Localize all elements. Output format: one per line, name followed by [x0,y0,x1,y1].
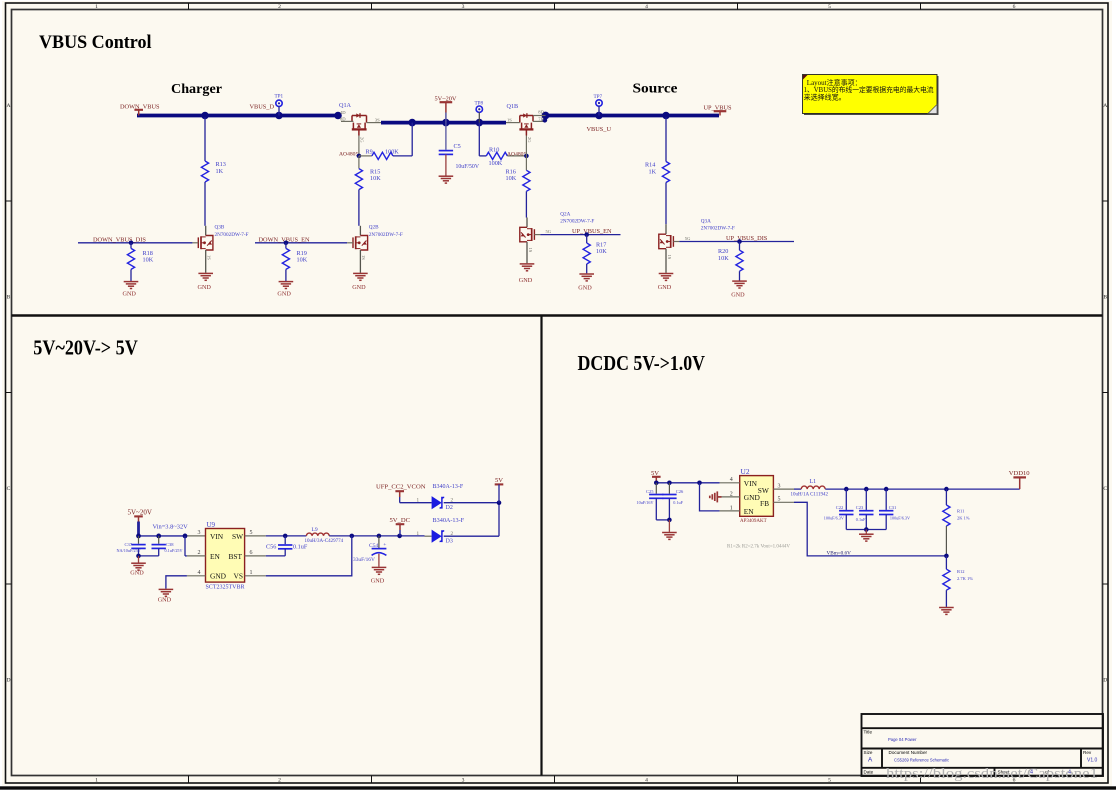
svg-text:3S: 3S [375,118,380,123]
svg-text:R1=2k R2=2.7k Vout=1.0444V: R1=2k R2=2.7k Vout=1.0444V [727,545,790,550]
svg-text:10K: 10K [370,175,381,182]
svg-text:AP3409AKT: AP3409AKT [740,519,767,524]
ground under C37 [138,556,140,563]
svg-text:GND: GND [371,577,385,584]
svg-text:6: 6 [250,550,253,556]
wire cap bottoms [846,529,886,531]
VBUS bus segment left [137,114,338,118]
resistor R14 [665,117,667,161]
svg-text:EN: EN [744,507,755,516]
svg-text:4D: 4D [340,110,346,115]
svg-text:VIN: VIN [744,479,758,488]
svg-text:4: 4 [198,570,201,576]
svg-text:FB: FB [760,499,769,508]
svg-text:B340A-13-F: B340A-13-F [433,484,464,490]
svg-text:5V: 5V [495,477,503,484]
wire VIN rail [139,535,187,537]
pin stubs U9 [187,536,266,576]
svg-text:5G: 5G [546,229,552,234]
svg-text:10uF/50V: 10uF/50V [456,164,480,170]
svg-text:5V~20V-> 5V: 5V~20V-> 5V [33,336,138,360]
svg-text:D3: D3 [446,538,453,544]
svg-text:1S: 1S [207,255,212,260]
svg-text:https://blog.csdn.net/Capstone: https://blog.csdn.net/Capstone1 [886,766,1098,782]
wire VS feedback loop [266,536,352,576]
resistor R15 [358,156,360,169]
svg-text:B: B [1103,295,1107,301]
wire L9 to output node [329,535,424,537]
wire U9 GND pin [166,576,187,589]
wire cap bottoms [139,555,159,557]
svg-text:10uF/16V: 10uF/16V [637,500,654,505]
svg-text:A: A [1103,103,1107,109]
svg-text:R11: R11 [957,509,964,514]
capacitor C56 [284,536,286,544]
svg-text:2N7002DW-7-F: 2N7002DW-7-F [215,232,249,238]
resistor R13 [204,117,206,161]
svg-text:2N7002DW-7-F: 2N7002DW-7-F [369,232,403,238]
svg-text:AO4805: AO4805 [507,151,526,157]
capacitor C5 [445,123,447,150]
svg-text:100uF/6.3V: 100uF/6.3V [890,516,910,521]
svg-text:UP_VBUS_EN: UP_VBUS_EN [572,228,612,235]
svg-text:C38: C38 [166,542,174,547]
resistor R11 [945,489,947,505]
svg-text:GND: GND [519,277,533,284]
ground under R19 [279,282,294,289]
note box shadow [804,76,939,115]
pin stubs U2 [720,483,794,511]
svg-text:6: 6 [1013,4,1016,10]
transistor Q1A (P-MOSFET) [352,116,367,136]
svg-text:VBUS_U: VBUS_U [587,126,612,133]
svg-text:VDD10: VDD10 [1009,470,1031,477]
svg-text:来选择线宽。: 来选择线宽。 [804,92,846,101]
resistor R12 [945,556,947,569]
svg-text:GND: GND [210,572,227,581]
wire cap bottoms [656,519,669,521]
svg-text:10K: 10K [506,175,517,182]
transistor Q1B (P-MOSFET mirrored) [519,116,533,136]
svg-text:100K: 100K [385,148,399,155]
wire output rail [825,488,1019,490]
svg-text:Page 04 Power: Page 04 Power [888,737,917,743]
ground under R12 [939,608,954,615]
svg-text:3: 3 [462,778,465,784]
svg-text:B: B [7,295,11,301]
svg-text:5: 5 [828,778,831,784]
transistor Q3A (mirrored) [665,224,667,234]
ground under R17 [579,274,594,281]
svg-text:8D: 8D [538,110,544,115]
wire FB net [794,502,946,556]
ground under Q2B [359,250,361,273]
ground under R20 [732,281,747,288]
svg-text:D: D [6,678,10,684]
svg-text:8D: 8D [340,117,346,122]
svg-text:R10: R10 [489,146,499,153]
resistor R10 [479,155,486,157]
svg-text:Q2B: Q2B [369,224,379,230]
svg-text:Source: Source [633,82,678,97]
svg-text:10K: 10K [596,248,607,255]
svg-text:Rev: Rev [1083,750,1092,755]
VBUS bus segment right [546,114,720,118]
power ground at U2 GND pin [710,491,722,502]
capacitor C38 [158,536,160,544]
svg-text:C26: C26 [676,489,684,494]
bottom black strip [0,786,1116,789]
svg-text:1S: 1S [507,118,512,123]
svg-text:UP_VBUS_DIS: UP_VBUS_DIS [726,235,768,242]
svg-text:Q1B: Q1B [507,103,519,110]
svg-text:U2: U2 [741,467,750,476]
svg-text:Q3A: Q3A [701,218,711,224]
resistor R20 [739,242,741,251]
svg-text:A: A [868,757,873,764]
capacitor C26 [668,483,670,494]
node at Q1A gate [357,154,362,159]
capacitor C22 [845,489,847,510]
svg-text:100uF/6.3V: 100uF/6.3V [824,516,844,521]
svg-text:2G: 2G [527,137,532,143]
svg-text:1K: 1K [649,168,657,175]
ground under Q3B [205,250,207,273]
svg-text:4: 4 [645,4,648,10]
svg-text:0.1uF/25V: 0.1uF/25V [165,548,183,553]
svg-text:C: C [1103,486,1107,492]
svg-text:Size: Size [864,750,873,755]
svg-text:2: 2 [278,778,281,784]
svg-text:DOWN_VBUS_DIS: DOWN_VBUS_DIS [93,236,146,243]
svg-text:C22: C22 [836,505,844,510]
svg-text:Vin=3.8~32V: Vin=3.8~32V [153,524,189,531]
svg-text:0.1uF: 0.1uF [293,544,308,551]
svg-text:NA/10uF/25V: NA/10uF/25V [117,548,141,553]
svg-text:VBUS Control: VBUS Control [39,32,152,53]
svg-text:2K 1%: 2K 1% [957,516,970,521]
svg-text:2G: 2G [360,137,365,143]
wire SW node [266,535,307,537]
ground under U9 [159,589,174,596]
svg-text:C37: C37 [125,542,133,547]
svg-text:L9: L9 [312,527,318,533]
svg-text:D2: D2 [446,505,453,511]
svg-text:2N7002DW-7-F: 2N7002DW-7-F [560,218,594,224]
junction dots on bus [201,112,670,127]
transistor Q2B [359,226,361,236]
ground under C23 [865,530,867,534]
wire UP_VBUS_EN [540,234,620,236]
ground under R18 [124,282,139,289]
wire 5V rail [656,482,719,484]
capacitor C31 [885,489,887,510]
transistor Q2A (mirrored) [526,218,528,228]
svg-text:1S: 1S [361,255,366,260]
svg-text:C54: C54 [369,543,379,549]
resistor R18 [130,243,132,249]
svg-text:2.7K 1%: 2.7K 1% [957,576,973,581]
svg-text:0.1uF: 0.1uF [856,517,866,522]
svg-text:Q3B: Q3B [215,224,225,230]
svg-text:5V~20V: 5V~20V [128,508,152,516]
transistor Q3B [205,226,207,236]
svg-text:4: 4 [645,778,648,784]
svg-text:TP7: TP7 [594,94,603,100]
svg-text:C5: C5 [454,143,461,150]
svg-text:Charger: Charger [171,82,222,97]
svg-text:7D: 7D [538,116,544,121]
ground under C5 [439,176,454,183]
VBUS bus segment middle [381,121,506,125]
node at Q1B gate [524,154,529,159]
svg-text:1: 1 [95,778,98,784]
svg-text:0.1uF: 0.1uF [673,500,683,505]
svg-text:3: 3 [198,530,201,536]
svg-text:5G: 5G [685,236,691,241]
capacitor C54 polarized [378,536,380,548]
section dividers [12,314,1103,316]
svg-text:DCDC 5V->1.0V: DCDC 5V->1.0V [578,351,706,375]
svg-text:100K: 100K [489,160,503,167]
svg-text:1: 1 [250,570,253,576]
note box [803,75,938,114]
svg-text:BST: BST [229,552,243,561]
svg-text:B340A-13-F: B340A-13-F [433,517,465,524]
svg-text:33uF/16V: 33uF/16V [353,557,375,563]
svg-text:CS5269 Reference Schematic: CS5269 Reference Schematic [894,758,949,764]
svg-text:10K: 10K [143,256,154,263]
resistor R16 [525,156,527,170]
svg-text:Q1A: Q1A [339,102,352,109]
svg-text:+: + [383,542,386,548]
svg-text:SW: SW [758,486,769,495]
svg-text:D: D [1103,678,1107,684]
svg-text:Document Number: Document Number [889,750,928,755]
svg-text:GND: GND [198,284,212,291]
wire riser R9 to bus [411,123,413,156]
svg-text:VS: VS [234,572,243,581]
svg-text:U9: U9 [207,521,216,529]
svg-text:GND: GND [130,570,144,577]
wire UP_VBUS_DIS [679,241,794,243]
svg-text:1: 1 [417,497,420,503]
svg-text:5: 5 [250,530,253,536]
svg-text:C23: C23 [856,505,864,510]
note fold corner [928,105,937,114]
svg-text:GND: GND [578,285,592,292]
svg-text:SW: SW [232,532,243,541]
svg-text:10uH/3A-C429774: 10uH/3A-C429774 [305,539,344,544]
svg-text:GND: GND [158,596,172,603]
note corner marker [803,75,808,80]
svg-text:Q2A: Q2A [560,211,570,217]
resistor R9 [359,155,372,157]
wire DOWN_VBUS_DIS [78,242,192,244]
svg-text:GND: GND [123,291,137,298]
svg-text:C: C [7,486,11,492]
wire DOWN_VBUS_EN [255,242,347,244]
wire D3 to D2 cathode node [498,503,500,537]
svg-text:GND: GND [658,284,672,291]
svg-text:VIN: VIN [210,532,224,541]
ground under C25/C26 [668,520,670,532]
svg-text:V1.0: V1.0 [1087,758,1098,764]
svg-text:GND: GND [731,292,745,299]
svg-text:2N7002DW-7-F: 2N7002DW-7-F [701,225,735,231]
svg-text:EN: EN [210,552,221,561]
svg-text:GND: GND [352,284,366,291]
svg-text:5: 5 [828,4,831,10]
inductor L9 [306,533,329,536]
svg-text:C31: C31 [889,505,897,510]
svg-text:UFP_CC2_VCON: UFP_CC2_VCON [376,483,426,490]
svg-text:10uH/1A C111942: 10uH/1A C111942 [791,492,829,497]
svg-text:C56: C56 [266,544,276,551]
resistor R19 [285,243,287,249]
ground under Q2A [526,242,528,263]
svg-text:1S: 1S [528,248,533,253]
wire EN tie to VIN [184,536,186,556]
svg-text:VBm=0.6V: VBm=0.6V [827,551,852,557]
capacitor C23 [865,489,867,510]
svg-text:VBUS_D: VBUS_D [250,103,275,110]
ground under Q3A [665,249,667,273]
wire TP8 riser to R10 [478,123,480,156]
svg-text:SCT2325TVBR: SCT2325TVBR [206,584,245,590]
svg-text:2: 2 [198,550,201,556]
capacitor C25 [655,483,657,494]
svg-text:Title: Title [864,730,873,735]
svg-text:A: A [6,103,10,109]
svg-text:1: 1 [417,531,420,537]
svg-text:1S: 1S [667,255,672,260]
svg-text:1: 1 [95,4,98,10]
svg-text:GND: GND [277,291,291,298]
svg-text:AO4805: AO4805 [339,151,358,157]
svg-text:R9: R9 [366,148,373,155]
svg-text:TP1: TP1 [275,94,284,100]
svg-text:R12: R12 [957,569,965,574]
svg-text:L1: L1 [810,479,817,485]
op IC U9 [206,529,245,583]
svg-text:2: 2 [278,4,281,10]
svg-text:1K: 1K [216,168,224,175]
inductor L1 [794,488,801,490]
svg-text:C25: C25 [646,489,654,494]
svg-text:10K: 10K [297,256,308,263]
capacitor C37 [138,536,140,544]
svg-text:10K: 10K [718,255,729,262]
wire EN tie [700,483,720,511]
resistor R17 [586,235,588,243]
svg-text:3: 3 [462,4,465,10]
ground under C54 [372,567,387,574]
svg-text:Date: Date [864,769,874,774]
IC U2 [740,476,774,517]
